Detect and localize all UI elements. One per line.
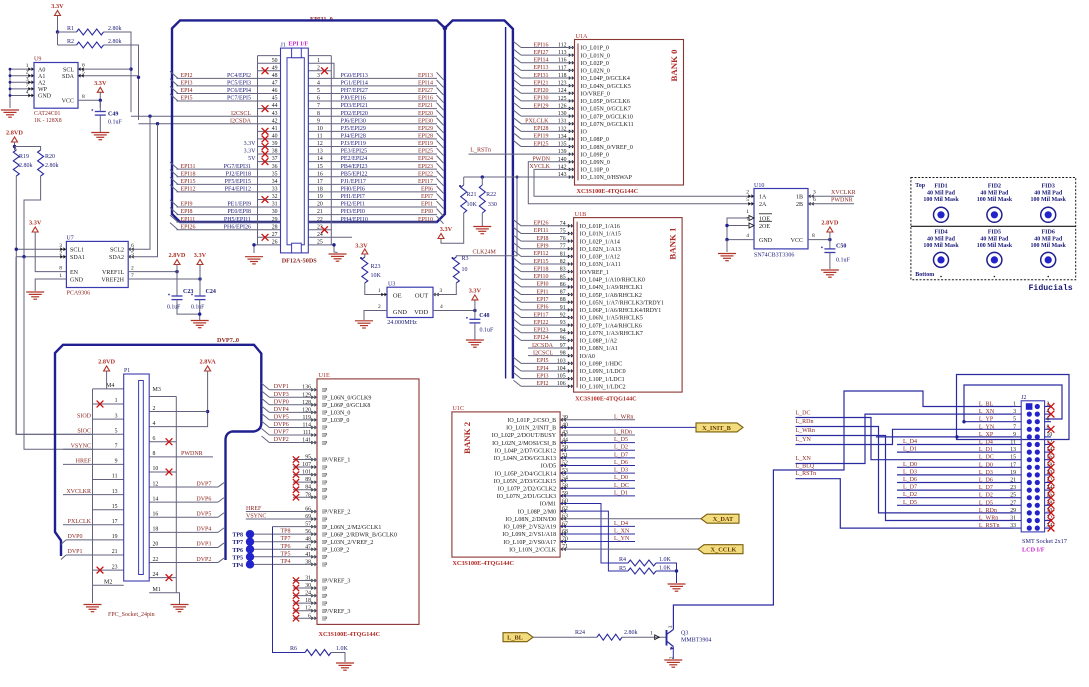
svg-text:5: 5 — [317, 88, 320, 94]
svg-text:EPI17: EPI17 — [534, 312, 549, 318]
svg-text:EPI20: EPI20 — [534, 88, 549, 94]
svg-text:L_XP: L_XP — [979, 432, 994, 438]
svg-text:XVCLKR: XVCLKR — [831, 190, 856, 196]
wire R24 to Q3 base — [622, 631, 667, 638]
svg-text:DVP4: DVP4 — [196, 527, 211, 533]
wire U10 OE to GND — [725, 218, 754, 252]
wire L_D1 to J2 — [897, 447, 1013, 453]
IC U10 SN74CB3T3306 — [746, 183, 816, 259]
svg-text:EPI6: EPI6 — [421, 186, 433, 192]
svg-text:SCL2: SCL2 — [110, 248, 124, 254]
svg-text:15: 15 — [112, 504, 118, 510]
svg-text:40 Mil Pad: 40 Mil Pad — [927, 191, 956, 197]
svg-text:PJ6/EPI30: PJ6/EPI30 — [341, 118, 366, 124]
svg-text:SMT Socket 2x17: SMT Socket 2x17 — [1022, 538, 1067, 545]
svg-text:L_D4: L_D4 — [903, 439, 917, 445]
svg-text:EPI28: EPI28 — [534, 126, 549, 132]
svg-text:17: 17 — [112, 519, 118, 525]
svg-text:L_BL: L_BL — [979, 402, 994, 408]
svg-text:L_D2: L_D2 — [614, 445, 628, 451]
wire R3 to OUT — [433, 283, 456, 295]
capacitor C49 — [91, 101, 122, 132]
svg-text:FPC_Socket_24pin: FPC_Socket_24pin — [108, 612, 155, 618]
net label EPI31..0 (bus name) — [310, 16, 333, 23]
svg-text:DVP0: DVP0 — [67, 534, 82, 540]
power 3.3V (C48) — [469, 287, 482, 300]
svg-text:PH4/EPI10: PH4/EPI10 — [341, 217, 368, 223]
svg-text:J1: J1 — [281, 43, 286, 49]
svg-text:IO/A0: IO/A0 — [580, 354, 595, 360]
wire I2CSCL — [131, 115, 258, 118]
flag X_CCLK — [698, 545, 743, 554]
ground (C49) — [91, 133, 109, 140]
svg-text:EPI22: EPI22 — [418, 171, 433, 177]
wire U7 SDA2 to I2CSDA — [128, 124, 158, 257]
svg-text:M2: M2 — [104, 579, 112, 585]
svg-text:4: 4 — [317, 81, 320, 87]
svg-text:14: 14 — [153, 496, 159, 502]
svg-text:EPI24: EPI24 — [534, 335, 549, 341]
net label PWDNR — [831, 198, 853, 204]
svg-text:12: 12 — [153, 481, 159, 487]
svg-text:IO_L03N_1/A11: IO_L03N_1/A11 — [580, 262, 621, 268]
svg-text:EPI0: EPI0 — [537, 282, 549, 288]
svg-text:EPI9: EPI9 — [181, 202, 193, 208]
svg-text:0.1uF: 0.1uF — [836, 258, 851, 264]
svg-text:DVP0: DVP0 — [274, 399, 289, 405]
ground (Q3) — [664, 660, 682, 667]
wire L_D0 to J2 — [897, 462, 1013, 468]
svg-text:U1B: U1B — [575, 211, 587, 218]
svg-text:GND: GND — [38, 94, 52, 100]
svg-text:L_D4: L_D4 — [979, 440, 993, 446]
svg-text:R22: R22 — [486, 192, 496, 198]
wire PWDN to U10 — [528, 157, 754, 204]
svg-text:1B: 1B — [796, 195, 803, 201]
svg-text:DVP3: DVP3 — [196, 542, 211, 548]
svg-text:IO_L04P_1/A10/RHCLK0: IO_L04P_1/A10/RHCLK0 — [580, 277, 645, 283]
svg-text:EPI18: EPI18 — [181, 171, 196, 177]
wire L_YN to J2 pin7 — [796, 429, 1014, 444]
fiducials box — [911, 178, 1076, 280]
svg-text:IO_L02N_1/A13: IO_L02N_1/A13 — [580, 247, 621, 253]
svg-text:2.8VA: 2.8VA — [200, 359, 217, 366]
svg-text:IO_L07N_2/D1/GCLK3: IO_L07N_2/D1/GCLK3 — [497, 494, 556, 500]
svg-text:3.3V: 3.3V — [244, 149, 257, 155]
svg-text:28: 28 — [272, 224, 278, 230]
svg-text:2: 2 — [317, 65, 320, 71]
svg-text:EPI27: EPI27 — [534, 50, 549, 56]
svg-text:FID2: FID2 — [988, 184, 1001, 190]
svg-text:19: 19 — [112, 534, 118, 540]
wire Q3 collector to L_BLQ — [673, 391, 1013, 630]
svg-text:IO_L05P_1/A8/RHCLK2: IO_L05P_1/A8/RHCLK2 — [580, 293, 642, 299]
svg-text:1: 1 — [746, 209, 749, 215]
IC U1A XC3S100E BANK 0 — [514, 33, 684, 185]
svg-text:I2CSCL: I2CSCL — [231, 111, 251, 117]
svg-text:U1E: U1E — [319, 372, 331, 379]
svg-text:6: 6 — [317, 96, 320, 102]
svg-text:VCC: VCC — [62, 99, 74, 105]
svg-text:EPI I/F: EPI I/F — [288, 41, 308, 48]
ground (J1 pin26) — [245, 257, 263, 264]
svg-text:Q3: Q3 — [681, 630, 688, 636]
value label XC3S100E-4TQG144C (U1C) — [452, 560, 514, 567]
IC U1B XC3S100E BANK 1 — [514, 211, 683, 392]
wire VREF1L 2.8VD — [128, 270, 179, 273]
svg-text:TP5: TP5 — [232, 555, 243, 561]
svg-text:7: 7 — [317, 103, 320, 109]
svg-text:L_YP: L_YP — [979, 417, 994, 423]
svg-text:PXLCLK: PXLCLK — [68, 519, 92, 525]
svg-text:L_D0: L_D0 — [614, 475, 628, 481]
svg-text:I2CSDA: I2CSDA — [532, 343, 554, 349]
svg-text:13: 13 — [1010, 447, 1016, 453]
svg-text:IO_L05P_0/GCLK6: IO_L05P_0/GCLK6 — [581, 99, 630, 105]
power 3.3V (R21) — [438, 226, 453, 239]
wire U10 VCC — [808, 232, 832, 249]
svg-text:EPI25: EPI25 — [418, 149, 433, 155]
svg-text:2B: 2B — [796, 202, 803, 208]
svg-text:IO_L08P_2/M0: IO_L08P_2/M0 — [518, 509, 556, 515]
svg-text:IO_L08P_1/A2: IO_L08P_1/A2 — [580, 339, 617, 345]
svg-text:23: 23 — [112, 564, 118, 570]
svg-text:EPI9: EPI9 — [537, 244, 549, 250]
svg-text:10: 10 — [317, 126, 323, 132]
svg-text:DF12A-50DS: DF12A-50DS — [282, 258, 318, 265]
fiducial FID2 — [977, 184, 1013, 223]
wire XVCLKR out — [808, 195, 854, 197]
wire VREF2H 3.3V — [128, 277, 202, 280]
svg-text:L_DC: L_DC — [979, 455, 994, 461]
svg-text:4: 4 — [746, 233, 749, 239]
wire loop (J2 pin10 wrap) — [955, 375, 1069, 440]
svg-text:IO_L09N_2/VS1/A18: IO_L09N_2/VS1/A18 — [502, 532, 556, 538]
svg-text:TP8: TP8 — [281, 529, 291, 535]
svg-text:PF5/EPI15: PF5/EPI15 — [225, 179, 251, 185]
svg-text:DVP6: DVP6 — [196, 496, 211, 502]
svg-text:24: 24 — [317, 232, 323, 238]
svg-text:IP/VREF_3: IP/VREF_3 — [322, 609, 350, 615]
svg-text:VCC: VCC — [791, 238, 803, 244]
value label XC3S100E-4TQG144C (U1A) — [577, 188, 639, 195]
svg-text:39: 39 — [272, 141, 278, 147]
value label DF12A-50DS — [282, 258, 318, 265]
wire L_DC to J2 pin15 — [796, 418, 1014, 460]
wire U3 GND — [364, 304, 387, 320]
svg-text:R1: R1 — [67, 26, 74, 32]
wire L_XN to J2 pin3 — [796, 414, 1014, 463]
svg-text:R4: R4 — [619, 557, 626, 563]
svg-text:42: 42 — [272, 118, 278, 124]
fiducial FID6 — [1031, 230, 1067, 268]
resistor R6 — [290, 646, 349, 656]
svg-text:5: 5 — [1013, 417, 1016, 423]
svg-text:IP: IP — [322, 426, 328, 432]
svg-text:Fiducials: Fiducials — [1029, 283, 1073, 293]
svg-text:IP: IP — [322, 517, 328, 523]
svg-text:CAT24C01: CAT24C01 — [34, 111, 61, 117]
wire SDA1 net — [16, 176, 93, 449]
svg-text:IO_L09P_0: IO_L09P_0 — [581, 152, 609, 158]
svg-text:IP: IP — [322, 616, 328, 622]
svg-text:PC7/EPI5: PC7/EPI5 — [227, 96, 251, 102]
svg-text:XC3S100E-4TQG144C: XC3S100E-4TQG144C — [452, 560, 514, 567]
svg-text:EPI12: EPI12 — [534, 251, 549, 257]
svg-text:XVCLKR: XVCLKR — [66, 489, 91, 495]
svg-text:8: 8 — [317, 111, 320, 117]
svg-text:40 Mil Pad: 40 Mil Pad — [1034, 237, 1063, 243]
svg-text:X_DAT: X_DAT — [713, 516, 734, 523]
svg-text:X_INIT_B: X_INIT_B — [702, 425, 731, 432]
svg-text:IO_L07N_1/A3/RHCLK7: IO_L07N_1/A3/RHCLK7 — [580, 331, 643, 337]
svg-text:IO_L08N_2/DIN/D0: IO_L08N_2/DIN/D0 — [505, 517, 556, 523]
wire X_CCLK — [560, 548, 698, 550]
svg-text:PE2/EPI24: PE2/EPI24 — [341, 156, 368, 162]
svg-text:5: 5 — [746, 197, 749, 203]
svg-text:EPI30: EPI30 — [534, 96, 549, 102]
svg-text:IP: IP — [322, 495, 328, 501]
svg-text:2: 2 — [378, 304, 381, 310]
svg-text:2.80k: 2.80k — [19, 163, 33, 169]
svg-text:21: 21 — [1010, 478, 1016, 484]
svg-text:3.3V: 3.3V — [355, 243, 368, 250]
fiducial FID5 — [977, 230, 1013, 268]
svg-text:M1: M1 — [153, 587, 161, 593]
svg-text:EPI1: EPI1 — [421, 202, 433, 208]
connector J2 right pins — [1045, 402, 1055, 532]
svg-text:VREF1L: VREF1L — [102, 270, 124, 276]
wire L_D3 to J2 — [897, 469, 1013, 475]
svg-text:40 Mil Pad: 40 Mil Pad — [927, 237, 956, 243]
IC U3 24.000MHz oscillator — [381, 282, 438, 327]
svg-text:IP_L06P_2/RDWR_B/GCLK0: IP_L06P_2/RDWR_B/GCLK0 — [322, 532, 397, 538]
wire Q3 emitter to ground — [672, 647, 674, 660]
svg-text:PE3/EPI25: PE3/EPI25 — [341, 149, 368, 155]
value label XC3S100E-4TQG144C (U1E) — [319, 631, 381, 638]
svg-text:IO_L07P_0/GCLK10: IO_L07P_0/GCLK10 — [581, 114, 633, 120]
svg-text:DVP7: DVP7 — [274, 430, 289, 436]
svg-text:EPI2: EPI2 — [181, 73, 193, 79]
svg-text:3.3V: 3.3V — [94, 80, 107, 87]
svg-text:PD3/EPI21: PD3/EPI21 — [341, 103, 368, 109]
value label XC3S100E-4TQG144C (U1B) — [575, 396, 637, 403]
svg-text:VSYNC: VSYNC — [71, 444, 91, 450]
svg-text:PB4/EPI23: PB4/EPI23 — [341, 164, 368, 170]
flag X_DAT — [701, 514, 739, 523]
svg-text:43: 43 — [272, 111, 278, 117]
svg-text:IP/VREF_3: IP/VREF_3 — [322, 579, 350, 585]
power 2.8VD (VREF1L) — [169, 252, 186, 296]
wire CLK24M — [456, 176, 518, 257]
svg-text:EPI27: EPI27 — [418, 88, 433, 94]
svg-text:PD2/EPI20: PD2/EPI20 — [341, 111, 368, 117]
svg-text:IO_L06P_1/A6/RHCLK4/IRDY1: IO_L06P_1/A6/RHCLK4/IRDY1 — [580, 308, 662, 314]
svg-text:EPI7: EPI7 — [537, 297, 549, 303]
svg-text:2.80k: 2.80k — [108, 26, 122, 32]
svg-text:40 Mil Pad: 40 Mil Pad — [1034, 191, 1063, 197]
svg-text:21: 21 — [112, 549, 118, 555]
svg-text:18: 18 — [317, 186, 323, 192]
wire SCL pull-up — [104, 32, 133, 112]
svg-text:EPI4: EPI4 — [537, 366, 549, 372]
svg-text:EPI29: EPI29 — [534, 103, 549, 109]
net labels (LCD nets) — [796, 411, 817, 478]
wire SDA pull-up — [104, 45, 141, 120]
svg-text:SCL1: SCL1 — [70, 248, 84, 254]
svg-text:L_WRn: L_WRn — [979, 516, 998, 522]
svg-text:9: 9 — [1013, 432, 1016, 438]
svg-text:PWDNR: PWDNR — [831, 198, 853, 204]
svg-text:U3: U3 — [388, 282, 395, 288]
svg-text:PJ3/EPI19: PJ3/EPI19 — [341, 141, 366, 147]
svg-text:7: 7 — [1013, 424, 1016, 430]
wire U7 SCL2 to I2CSCL — [128, 116, 150, 249]
svg-text:L_D5: L_D5 — [614, 437, 628, 443]
svg-text:L_D6: L_D6 — [979, 478, 993, 484]
svg-text:TP7: TP7 — [232, 540, 243, 546]
svg-text:P1: P1 — [124, 368, 130, 374]
svg-text:7: 7 — [115, 444, 118, 450]
wire R21 to 3.3V — [441, 213, 464, 243]
wire L_BL to R24 — [533, 636, 597, 638]
svg-text:10: 10 — [1047, 432, 1053, 438]
svg-text:PJ4/EPI28: PJ4/EPI28 — [341, 134, 366, 140]
connector J1 right pins rows 1-25 — [317, 58, 444, 246]
svg-text:L_D0: L_D0 — [979, 462, 993, 468]
ground (R22) — [473, 227, 491, 234]
svg-text:EPI19: EPI19 — [534, 134, 549, 140]
svg-text:IO_L01P_2/CSO_B: IO_L01P_2/CSO_B — [507, 418, 556, 424]
svg-text:EPI23: EPI23 — [534, 328, 549, 334]
svg-text:29: 29 — [272, 217, 278, 223]
svg-text:EPI31: EPI31 — [181, 164, 196, 170]
svg-text:1A: 1A — [759, 195, 767, 201]
svg-text:12: 12 — [317, 141, 323, 147]
svg-text:2.80k: 2.80k — [624, 630, 638, 636]
svg-text:R23: R23 — [371, 264, 381, 270]
svg-text:PH2/EPI1: PH2/EPI1 — [341, 202, 365, 208]
resistor R1 — [67, 26, 122, 35]
svg-text:0.1uF: 0.1uF — [167, 305, 181, 311]
svg-text:FID4: FID4 — [934, 230, 947, 236]
connector J1 left pins rows 50-26 — [170, 58, 278, 246]
svg-text:J2: J2 — [1021, 395, 1026, 401]
svg-text:OUT: OUT — [415, 293, 428, 300]
resistor R20 — [38, 150, 59, 176]
svg-text:PE0/EPI8: PE0/EPI8 — [227, 209, 251, 215]
svg-text:L_DC: L_DC — [796, 411, 811, 417]
svg-text:IP: IP — [322, 433, 328, 439]
svg-text:EPI28: EPI28 — [418, 134, 433, 140]
svg-text:L_D5: L_D5 — [903, 500, 917, 506]
svg-text:23: 23 — [1010, 485, 1016, 491]
svg-text:6: 6 — [1047, 417, 1050, 423]
svg-text:IO_L10N_0/HSWAP: IO_L10N_0/HSWAP — [581, 175, 633, 181]
svg-text:TP6: TP6 — [232, 548, 243, 554]
svg-text:3: 3 — [1013, 409, 1016, 415]
fiducial FID1 — [923, 184, 959, 223]
svg-text:2.8VD: 2.8VD — [169, 252, 186, 259]
svg-text:27: 27 — [1010, 500, 1016, 506]
svg-text:U7: U7 — [66, 236, 73, 242]
svg-text:21: 21 — [317, 209, 323, 215]
svg-text:IP_L03N_2/VREF_2: IP_L03N_2/VREF_2 — [322, 540, 373, 546]
svg-text:DVP3: DVP3 — [274, 392, 289, 398]
svg-text:PWDN: PWDN — [532, 157, 550, 163]
svg-text:EPI19: EPI19 — [418, 141, 433, 147]
svg-text:PXLCLK: PXLCLK — [525, 119, 549, 125]
svg-text:IO_L10N_2/CCLK: IO_L10N_2/CCLK — [509, 547, 557, 553]
svg-text:A1: A1 — [38, 74, 45, 80]
svg-text:R21: R21 — [467, 192, 477, 198]
svg-text:DVP6: DVP6 — [274, 422, 289, 428]
svg-text:L_D7: L_D7 — [979, 485, 993, 491]
ground (C48) — [466, 340, 484, 347]
label Fiducials — [1029, 283, 1073, 293]
svg-text:C48: C48 — [479, 313, 489, 319]
svg-text:L_D3: L_D3 — [979, 470, 993, 476]
svg-text:SN74CB3T3306: SN74CB3T3306 — [754, 253, 794, 259]
svg-text:100 Mil Mask: 100 Mil Mask — [977, 243, 1013, 249]
svg-text:5V: 5V — [248, 156, 256, 162]
svg-text:1: 1 — [317, 58, 320, 64]
svg-text:IO_L09N_0: IO_L09N_0 — [581, 160, 610, 166]
svg-text:0.1uF: 0.1uF — [108, 120, 123, 126]
svg-text:VREF2H: VREF2H — [101, 277, 124, 283]
svg-text:C50: C50 — [836, 244, 846, 250]
svg-text:IO_L09P_1/HDC: IO_L09P_1/HDC — [580, 362, 623, 368]
svg-text:EPI17: EPI17 — [418, 179, 433, 185]
svg-text:IO_L04N_0/GCLK5: IO_L04N_0/GCLK5 — [581, 84, 631, 90]
svg-text:L_D1: L_D1 — [903, 447, 917, 453]
svg-text:40 Mil Pad: 40 Mil Pad — [980, 191, 1009, 197]
svg-text:2: 2 — [746, 190, 749, 196]
svg-text:R20: R20 — [45, 154, 55, 160]
flag X_INIT_B — [696, 423, 743, 432]
svg-text:1: 1 — [115, 398, 118, 404]
wire L_D2 to J2 — [897, 492, 1013, 498]
svg-text:PG0/EPI13: PG0/EPI13 — [341, 73, 368, 79]
svg-text:2.8VD: 2.8VD — [6, 130, 23, 137]
svg-text:FID3: FID3 — [1042, 184, 1055, 190]
svg-text:IO_L05N_2/D3/GCLK15: IO_L05N_2/D3/GCLK15 — [494, 479, 556, 485]
svg-text:25: 25 — [317, 239, 323, 245]
svg-text:IP: IP — [322, 563, 328, 569]
svg-text:C49: C49 — [108, 112, 118, 118]
flag L_BL — [503, 633, 533, 642]
svg-text:L_D7: L_D7 — [903, 485, 917, 491]
svg-text:10: 10 — [462, 267, 468, 273]
svg-text:2: 2 — [669, 656, 675, 659]
svg-text:EPI12: EPI12 — [181, 186, 196, 192]
svg-text:IO_L09P_2/VS2/A19: IO_L09P_2/VS2/A19 — [503, 525, 556, 531]
svg-text:XC3S100E-4TQG144C: XC3S100E-4TQG144C — [577, 188, 639, 195]
svg-text:IP_L06N_0/GCLK9: IP_L06N_0/GCLK9 — [322, 395, 371, 401]
svg-text:DVP2: DVP2 — [196, 557, 211, 563]
wire SCL1 net — [15, 176, 93, 434]
svg-text:IO_L01N_1/A15: IO_L01N_1/A15 — [580, 232, 621, 238]
svg-text:Bottom: Bottom — [915, 272, 934, 278]
power 3.3V (U7 EN) — [29, 220, 66, 272]
svg-text:1: 1 — [1013, 402, 1016, 408]
svg-text:20: 20 — [153, 542, 159, 548]
svg-text:A2: A2 — [38, 81, 45, 87]
svg-text:40 Mil Pad: 40 Mil Pad — [980, 237, 1009, 243]
svg-text:26: 26 — [272, 239, 278, 245]
connector J2 left pins — [979, 402, 1021, 530]
svg-text:EPI21: EPI21 — [418, 103, 433, 109]
